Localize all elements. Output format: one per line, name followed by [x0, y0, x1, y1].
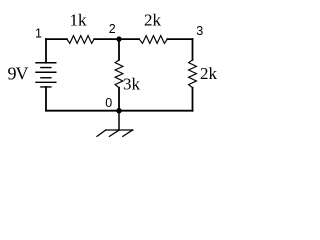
- wire: resistor R4 bottom lead to bottom rail: [192, 88, 194, 111]
- svg-text:2k: 2k: [144, 11, 162, 30]
- wire: resistor R2 to node 3 corner: [167, 38, 192, 40]
- node 0 junction dot: [116, 108, 121, 113]
- wire: node 3 to resistor R4 top lead: [192, 39, 194, 60]
- svg-text:0: 0: [105, 96, 112, 110]
- svg-text:2k: 2k: [200, 64, 218, 83]
- wire: node 2 to resistor R3 top lead: [118, 39, 120, 60]
- resistor R1 1k zigzag: [67, 36, 94, 44]
- ground symbol: [97, 130, 133, 137]
- wire: resistor R3 bottom lead to node 0: [118, 88, 120, 111]
- resistor R2 2k (horizontal) zigzag: [139, 36, 167, 44]
- wire: battery V1 negative lead to bottom rail: [45, 87, 47, 111]
- node 2 junction dot: [116, 36, 121, 41]
- wire: node 0 to ground symbol: [118, 111, 120, 130]
- svg-text:2: 2: [109, 22, 116, 36]
- svg-text:9V: 9V: [8, 64, 29, 84]
- wire: bottom rail from battery to node 0 to right leg: [46, 110, 193, 112]
- battery V1 plates (3 cells): [36, 63, 56, 87]
- svg-text:1k: 1k: [70, 11, 88, 30]
- resistor R3 3k (vertical) zigzag: [115, 60, 123, 88]
- wire: node 1 corner to resistor R1 left lead: [46, 38, 67, 40]
- svg-text:3k: 3k: [123, 74, 141, 93]
- resistor R4 2k (vertical right) zigzag: [189, 60, 197, 88]
- svg-text:1: 1: [35, 26, 42, 40]
- svg-text:3: 3: [196, 24, 203, 38]
- wire: battery V1 positive lead from node 1: [45, 39, 47, 63]
- wire: resistor R1 to node 2: [94, 38, 139, 40]
